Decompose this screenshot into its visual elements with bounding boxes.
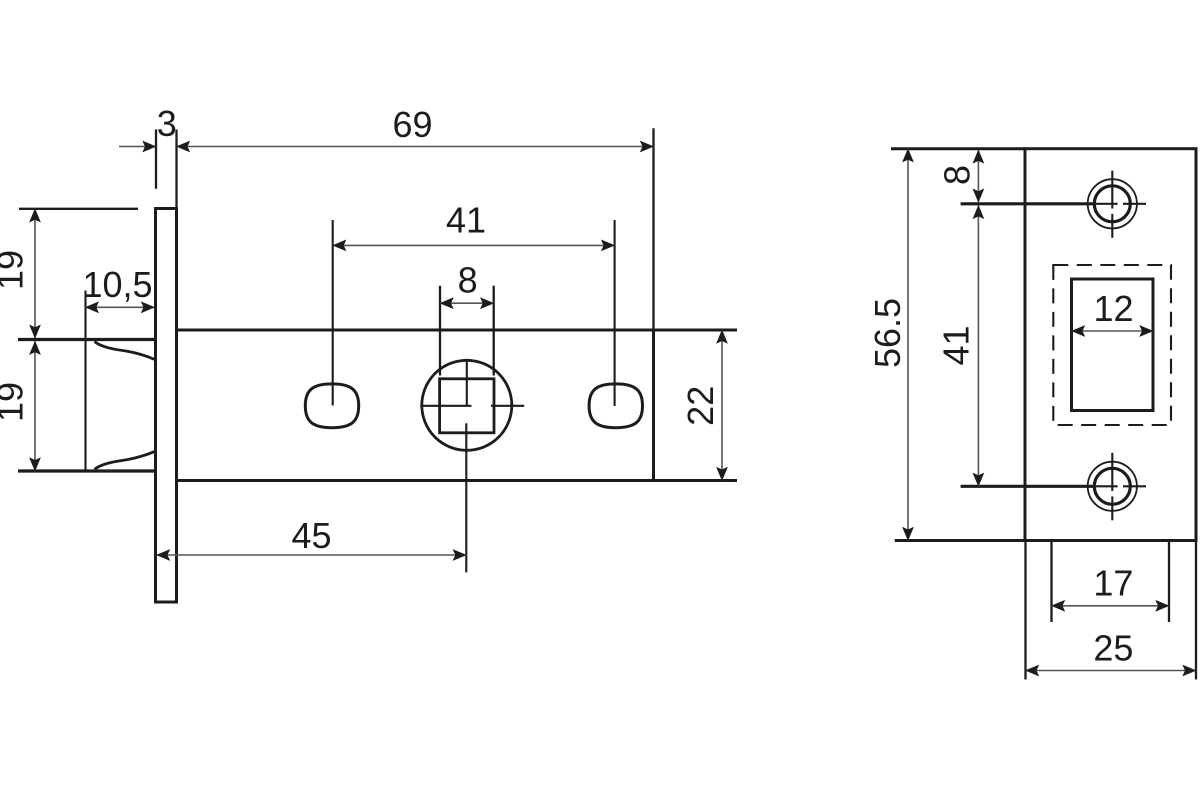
spindle vertical centerline upper: [466, 359, 468, 406]
dimension line 41 (left view): [333, 244, 615, 246]
svg-text:19: 19: [0, 250, 31, 290]
bottom screw hole inner circle: [1094, 468, 1130, 504]
svg-text:69: 69: [392, 104, 432, 145]
plate bottom extension (56.5): [895, 539, 1025, 542]
spindle horizontal centerline left: [420, 405, 471, 407]
spindle horizontal centerline right: [491, 405, 524, 407]
extension line for 69 (right, collinear with body right edge): [652, 128, 654, 330]
extension lines for 8 (left view): [439, 286, 441, 376]
extension line 41 right (to right oval center): [614, 220, 616, 406]
latch bolt bottom bevel curve: [95, 452, 155, 470]
right oval hole: [589, 384, 642, 428]
svg-text:8: 8: [458, 260, 478, 301]
svg-text:25: 25: [1093, 628, 1133, 669]
dimension line 22: [721, 330, 723, 481]
svg-text:17: 17: [1093, 563, 1133, 604]
dimension line 17: [1052, 605, 1170, 607]
svg-text:22: 22: [680, 386, 721, 426]
latch bolt bottom edge / reference line: [18, 469, 155, 472]
dimension line 56.5: [907, 149, 909, 541]
top screw hole inner circle: [1094, 186, 1130, 222]
body bottom edge (with 22-extension to the right): [177, 479, 738, 482]
dimension line 10,5: [85, 306, 154, 308]
dimension line 45: [157, 554, 467, 556]
top hole horizontal centerline: [1094, 203, 1118, 205]
spindle circle: [422, 360, 512, 450]
body right edge: [652, 330, 655, 481]
dimension line 19 bottom: [34, 341, 36, 471]
svg-text:3: 3: [157, 103, 177, 144]
dashed cutout rectangle: [1053, 265, 1171, 425]
dimension line 8 (left view): [440, 302, 494, 304]
extension lines for 25: [1024, 541, 1026, 680]
extension lines for 17: [1050, 541, 1052, 623]
dimension line 25: [1026, 670, 1197, 672]
body top edge (with 22-extension to the right): [177, 329, 738, 332]
dimension line 41 right: [977, 205, 979, 486]
bottom hole vertical centerline: [1111, 453, 1113, 491]
dimension line 3: [119, 146, 156, 148]
svg-text:45: 45: [291, 515, 331, 556]
latch bolt left face / extension of 10,5: [84, 291, 86, 472]
spindle vertical centerline lower / extension of 45: [465, 423, 467, 572]
latch bolt top bevel curve: [95, 342, 155, 360]
faceplate outline: [156, 209, 177, 603]
inner latch hole rectangle: [1072, 279, 1154, 411]
bottom hole horizontal centerline: [1094, 485, 1118, 487]
svg-text:41: 41: [446, 200, 486, 241]
top hole vertical centerline: [1111, 171, 1113, 209]
svg-text:41: 41: [936, 325, 977, 365]
svg-text:10,5: 10,5: [82, 264, 152, 305]
svg-text:19: 19: [0, 382, 31, 422]
top hole thick reference line (8 / 41): [961, 202, 1095, 205]
dimension line 12: [1072, 330, 1154, 332]
latch bolt top edge / reference line: [18, 338, 155, 341]
spindle square hole: [440, 379, 494, 433]
svg-text:56.5: 56.5: [867, 298, 908, 368]
extension lines for 3: [155, 130, 157, 189]
left oval hole: [305, 384, 358, 428]
bottom hole thick reference line (41): [961, 485, 1095, 488]
top screw hole outer circle: [1088, 179, 1137, 228]
extension line for 19 top: [19, 208, 138, 210]
dimension line 19 top: [34, 209, 36, 338]
extension line 41 left (to left oval center): [332, 220, 334, 406]
bottom screw hole outer circle: [1088, 462, 1137, 511]
svg-text:12: 12: [1093, 288, 1133, 329]
dimension line 69: [177, 146, 654, 148]
plate top extension (56.5 / 8): [891, 147, 1025, 150]
strike plate outline: [1025, 149, 1196, 541]
svg-text:8: 8: [936, 165, 977, 185]
dimension line 8 right: [977, 150, 979, 202]
